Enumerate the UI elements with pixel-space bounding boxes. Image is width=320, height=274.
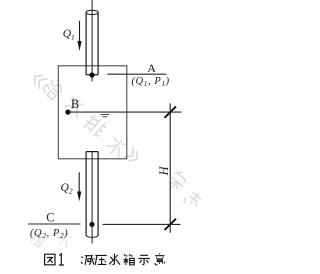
outlet pipe bottom ellipse [86,235,98,237]
svg-text:(Q1, P1): (Q1, P1) [132,76,170,88]
outlet pipe left wall [85,152,87,236]
flow arrow Q1 [77,21,81,51]
watermark 水 [62,95,86,120]
inlet pipe bottom cap [86,74,98,76]
caption 示 [139,255,150,265]
caption 图 [45,254,55,265]
svg-text:A: A [147,61,156,75]
inlet pipe right wall [97,12,99,74]
svg-text:B: B [71,97,79,111]
water surface symbol [101,115,110,117]
flow arrow Q2 [77,172,81,201]
watermark 给 [41,77,65,101]
outlet pipe centerline [91,152,93,244]
node at pipe outlet (dot) [89,72,94,77]
svg-text:C: C [46,210,54,224]
water level line from B [68,111,182,113]
node B (dot) [65,110,70,115]
node at outlet (dot) [89,222,94,227]
watermark partial row bottom-left 排 [27,230,45,248]
level line A [107,73,166,75]
caption 水 [109,254,120,265]
svg-text:(Q2, P2): (Q2, P2) [30,228,68,240]
caption 压 [95,255,106,265]
caption 减 [81,256,94,265]
inlet pipe centerline [91,0,93,81]
watermark 《 [31,72,48,89]
caption 意 [155,253,165,265]
watermark 杂 [166,168,190,193]
svg-text:H: H [157,165,171,176]
level line C left segment [28,223,81,225]
watermark 水 (second) [104,135,128,160]
dimension tick top [165,106,177,117]
dimension line H (vertical) [169,103,171,232]
inlet pipe left wall [85,12,87,74]
outlet pipe top cap [86,151,98,153]
svg-text:Q1: Q1 [63,28,75,42]
svg-text:Q2: Q2 [61,182,73,196]
watermark 志 [183,188,204,210]
watermark 》 [124,147,141,164]
level line C right segment [103,223,181,225]
outlet pipe right wall [97,152,99,236]
watermark partial row bottom-left 水 [55,230,74,249]
dimension tick bottom [165,219,177,230]
caption 1 [59,254,64,265]
inlet pipe top ellipse [86,10,98,14]
watermark 排 [82,113,109,140]
caption 箱 [124,254,135,265]
tank box [58,66,127,159]
